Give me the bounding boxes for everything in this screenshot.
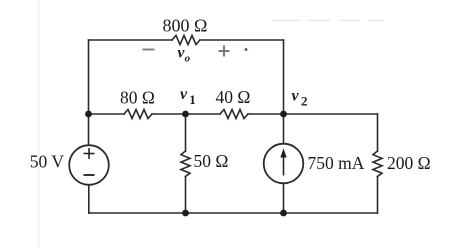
plus sign inside 50V source	[84, 148, 95, 159]
minus sign inside 50V source	[84, 174, 95, 176]
svg-text:80 Ω: 80 Ω	[120, 88, 155, 108]
wire left vertical (top corner down to 50V source)	[88, 40, 90, 145]
svg-text:vo: vo	[178, 45, 191, 65]
svg-text:50 Ω: 50 Ω	[194, 151, 229, 171]
svg-text:v1: v1	[180, 86, 196, 107]
junction node v2	[280, 111, 287, 118]
svg-text:40 Ω: 40 Ω	[216, 87, 251, 107]
wire from node v1 down to 50-ohm resistor	[185, 114, 187, 151]
wire middle row: 80-ohm to 40-ohm	[152, 113, 220, 115]
wire middle row: 40-ohm to right edge	[248, 113, 378, 115]
svg-text:750 mA: 750 mA	[308, 153, 365, 173]
faint bleed-through dashes	[272, 20, 384, 22]
junction node bottom under v1	[182, 210, 189, 217]
svg-text:800 Ω: 800 Ω	[163, 16, 208, 36]
wire right vertical (200-ohm down to bottom-right corner)	[377, 177, 379, 214]
wire left vertical (50V source down to bottom-left corner)	[88, 185, 90, 213]
svg-text:50 V: 50 V	[30, 152, 65, 172]
svg-text:200 Ω: 200 Ω	[387, 153, 431, 173]
resistor R 50 ohm (vertical zigzag)	[181, 151, 190, 176]
junction node bottom under v2	[280, 210, 287, 217]
wire right vertical (middle row down to 200-ohm)	[377, 114, 379, 151]
resistor R 200 ohm (vertical zigzag)	[373, 151, 382, 176]
stray maroon dot	[245, 48, 248, 51]
wire top-right vertical drop to node v2	[283, 40, 285, 114]
label minus of vo	[143, 49, 155, 51]
voltage source V1 50 V (circle)	[69, 145, 109, 185]
label plus of vo	[219, 46, 230, 57]
faint page-edge line	[38, 0, 40, 248]
svg-text:v2: v2	[292, 88, 308, 109]
wire middle row: left corner to 80-ohm resistor	[89, 113, 125, 115]
wire from current source down to bottom wire	[283, 183, 285, 213]
wire top-right horizontal (800-ohm to top-right corner)	[200, 39, 284, 41]
wire top-left horizontal (left corner to 800-ohm resistor)	[89, 39, 173, 41]
wire from 50-ohm resistor down to bottom wire	[185, 177, 187, 214]
arrow inside 750mA current source	[283, 155, 285, 176]
resistor R 80 ohm (horizontal zigzag)	[124, 110, 152, 119]
junction node v1	[182, 111, 189, 118]
wire bottom row	[89, 212, 378, 214]
resistor R 800 ohm (horizontal zigzag, top branch)	[172, 36, 200, 45]
junction node at left middle	[85, 111, 92, 118]
resistor R 40 ohm (horizontal zigzag)	[220, 110, 248, 119]
wire from node v2 down to current source	[283, 114, 285, 144]
current source I1 750 mA (circle)	[264, 144, 304, 184]
